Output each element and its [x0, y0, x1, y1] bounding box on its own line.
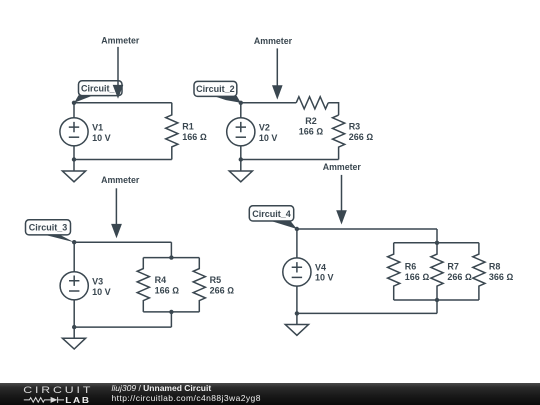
wire: V4 bottom lead: [296, 286, 298, 313]
footer credit text: [112, 384, 261, 404]
voltage source V1: [60, 118, 88, 146]
svg-text:R5: R5: [210, 275, 222, 285]
svg-text:Ammeter: Ammeter: [101, 36, 140, 46]
node: circuit 3 parallel bottom junction: [169, 310, 173, 314]
wire: V3 top lead: [73, 242, 75, 272]
wire: circuit 3 parallel bottom bar: [143, 311, 199, 313]
svg-text:Ammeter: Ammeter: [254, 36, 293, 46]
wire: circuit 4 top-right drop: [436, 229, 438, 243]
svg-text:266 Ω: 266 Ω: [210, 285, 235, 295]
node label callout Circuit_1: [74, 81, 122, 103]
footer bar: [0, 383, 540, 405]
svg-text:V4: V4: [315, 263, 326, 273]
resistor R1: [166, 103, 178, 160]
svg-text:166 Ω: 166 Ω: [155, 285, 180, 295]
svg-text:10 V: 10 V: [92, 133, 111, 143]
node: circuit 4 bottom-left junction: [295, 311, 299, 315]
node label callout Circuit_4: [249, 206, 297, 229]
svg-text:CIRCUIT: CIRCUIT: [23, 385, 93, 395]
node: circuit 4 parallel bottom junction: [435, 298, 439, 302]
resistor R8: [473, 243, 485, 300]
svg-text:166 Ω: 166 Ω: [182, 132, 207, 142]
wire: circuit 3 bottom drop: [170, 312, 172, 327]
wire: circuit 4 parallel bottom bar: [394, 299, 479, 301]
resistor R4: [137, 258, 149, 312]
svg-text:R7: R7: [447, 261, 459, 271]
node: circuit 4 top-left junction: [295, 227, 299, 231]
svg-text:R1: R1: [182, 122, 194, 132]
resistor R2: [296, 97, 328, 109]
ground: circuit 3: [62, 327, 85, 349]
svg-text:Circuit_3: Circuit_3: [29, 223, 68, 233]
wire: circuit 2 top rail left: [241, 102, 296, 104]
ammeter probe 2 arrow: [111, 188, 122, 238]
svg-text:266 Ω: 266 Ω: [349, 132, 374, 142]
svg-text:Circuit_4: Circuit_4: [252, 209, 291, 219]
svg-text:R4: R4: [155, 275, 167, 285]
svg-text:10 V: 10 V: [92, 287, 111, 297]
ammeter probe 1 arrow: [113, 47, 124, 99]
resistor R6: [388, 243, 400, 300]
svg-text:R8: R8: [489, 261, 501, 271]
wire: V2 bottom lead: [240, 146, 242, 160]
wire: circuit 1 bottom rail: [74, 159, 172, 161]
ground: circuit 4: [285, 313, 308, 335]
ammeter probe 3 arrow: [272, 48, 283, 99]
svg-text:R6: R6: [405, 261, 417, 271]
voltage source V4: [283, 258, 311, 286]
wire: circuit 2 top-right corner: [328, 103, 338, 115]
svg-text:266 Ω: 266 Ω: [447, 272, 472, 282]
CircuitLab logo: [0, 383, 100, 405]
svg-text:Ammeter: Ammeter: [101, 175, 140, 185]
wire: circuit 4 parallel top bar: [394, 242, 479, 244]
ground: circuit 1: [62, 160, 85, 182]
svg-text:R3: R3: [349, 122, 361, 132]
wire: circuit 3 bottom rail: [74, 326, 171, 328]
wire: V4 top lead: [296, 229, 298, 258]
wire: circuit 4 top rail: [297, 228, 437, 230]
node: circuit 1 top junction: [72, 101, 76, 105]
node: circuit 1 bottom junction: [72, 157, 76, 161]
svg-text:Circuit_2: Circuit_2: [196, 84, 235, 94]
wire: V1 bottom lead: [73, 146, 75, 160]
wire: circuit 2 bottom rail: [241, 159, 339, 161]
svg-text:R2: R2: [305, 116, 317, 126]
svg-text:Ammeter: Ammeter: [323, 162, 362, 172]
resistor R3: [333, 115, 345, 159]
svg-text:166 Ω: 166 Ω: [405, 272, 430, 282]
node: circuit 2 top junction: [239, 101, 243, 105]
wire: circuit 3 top-right drop: [170, 242, 172, 257]
svg-text:166 Ω: 166 Ω: [299, 126, 324, 136]
node label callout Circuit_3: [26, 220, 75, 242]
svg-text:V2: V2: [259, 123, 270, 133]
node: circuit 3 bottom-left junction: [72, 325, 76, 329]
svg-text:10 V: 10 V: [315, 273, 334, 283]
svg-text:V1: V1: [92, 123, 103, 133]
node: circuit 4 parallel top junction: [435, 241, 439, 245]
node: circuit 2 bottom junction: [239, 157, 243, 161]
wire: circuit 4 bottom drop: [436, 300, 438, 313]
node: circuit 3 parallel top junction: [169, 255, 173, 259]
voltage source V2: [227, 118, 255, 146]
ground: circuit 2: [229, 160, 252, 182]
ammeter probe 4 arrow: [336, 175, 347, 225]
wire: circuit 4 bottom rail: [297, 312, 437, 314]
resistor R7: [431, 243, 443, 300]
node label callout Circuit_2: [194, 81, 241, 102]
wire: V1 top lead: [73, 103, 75, 118]
voltage source V3: [60, 272, 88, 300]
svg-text:366 Ω: 366 Ω: [489, 272, 514, 282]
wire: V3 bottom lead: [73, 300, 75, 328]
svg-text:LAB: LAB: [65, 396, 91, 405]
svg-text:10 V: 10 V: [259, 133, 278, 143]
node: circuit 3 top-left junction: [72, 240, 76, 244]
wire: circuit 1 top rail: [74, 102, 172, 104]
wire: circuit 3 parallel top bar: [143, 257, 199, 259]
resistor R5: [193, 258, 205, 312]
wire: V2 top lead: [240, 103, 242, 118]
svg-text:V3: V3: [92, 277, 103, 287]
wire: circuit 3 top rail: [74, 241, 171, 243]
